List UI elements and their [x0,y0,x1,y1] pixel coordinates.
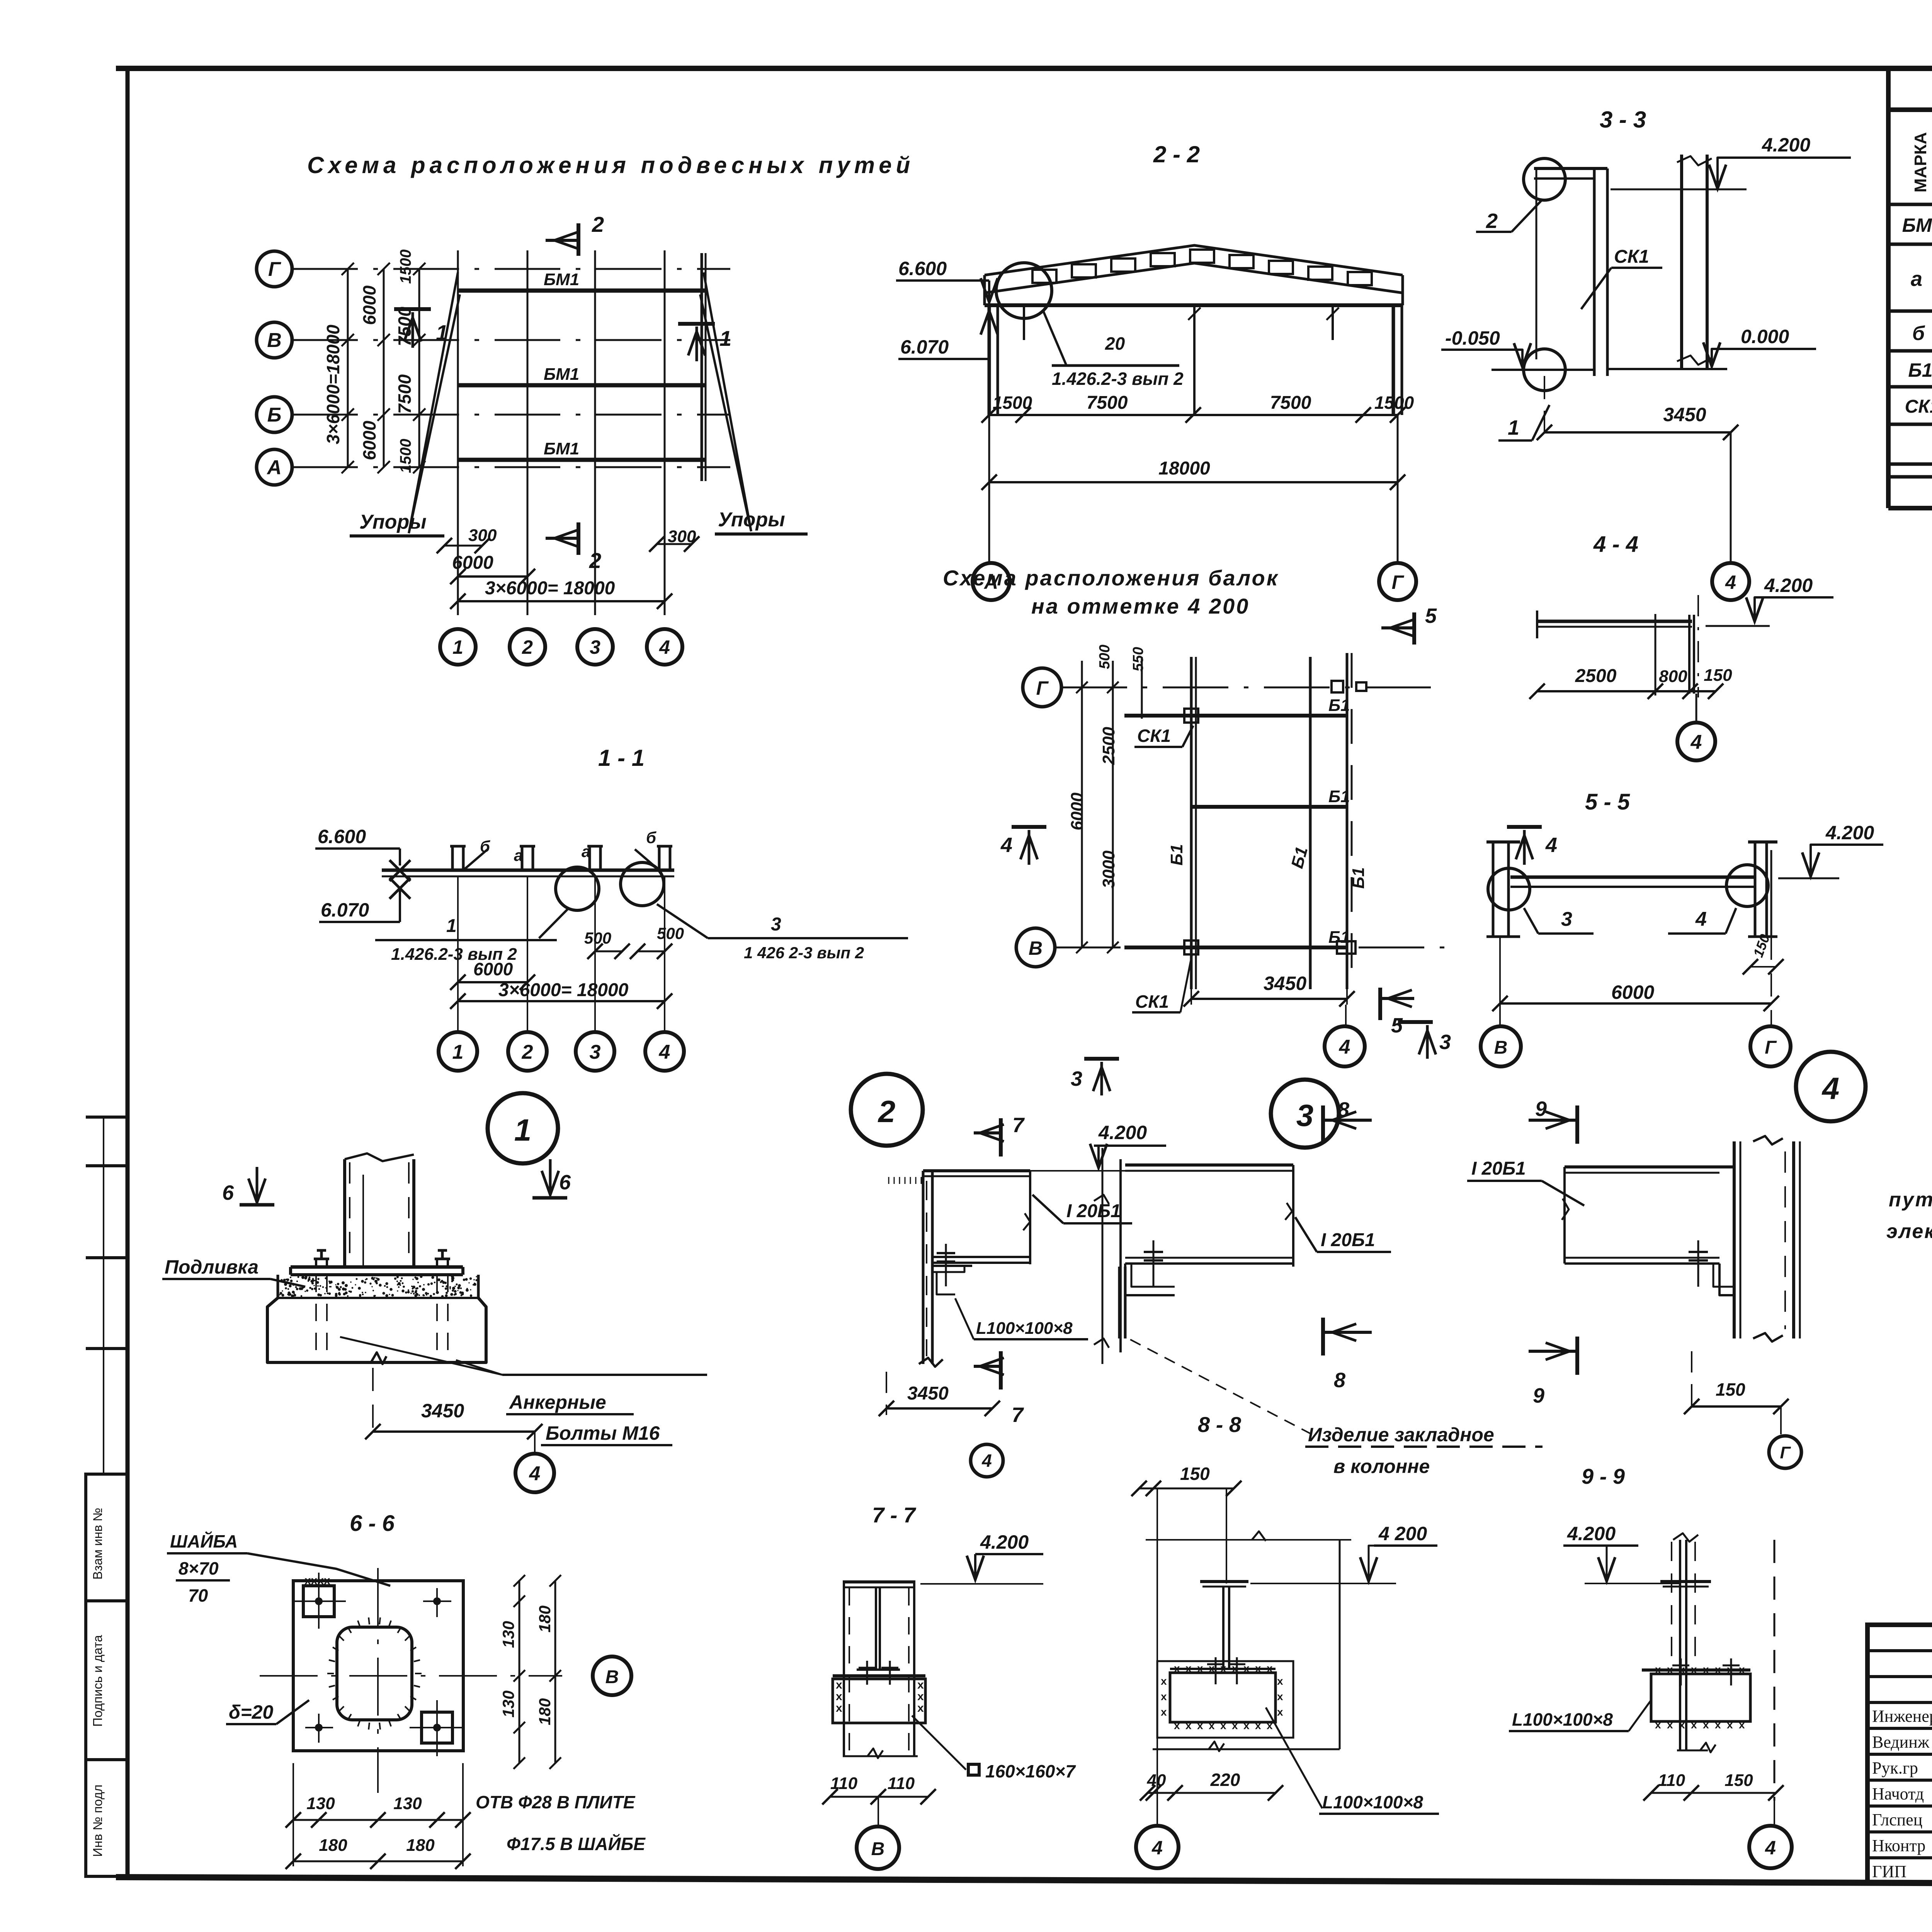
svg-text:130: 130 [306,1794,335,1813]
svg-text:6.600: 6.600 [318,826,366,847]
svg-text:1500: 1500 [1374,393,1414,413]
svg-text:Нконтр: Нконтр [1872,1836,1925,1855]
svg-text:В: В [1029,937,1043,959]
svg-text:Г: Г [1392,571,1405,593]
svg-text:6000: 6000 [473,959,513,979]
svg-text:В: В [267,329,282,352]
svg-text:160×160×7: 160×160×7 [985,1761,1076,1781]
svg-text:8: 8 [1334,1369,1345,1392]
svg-text:6.600: 6.600 [898,258,947,279]
svg-text:4 200: 4 200 [1378,1523,1427,1544]
svg-text:x: x [1243,1719,1250,1731]
svg-text:1500: 1500 [397,250,414,284]
svg-text:Начотд: Начотд [1872,1784,1924,1803]
svg-text:СК1: СК1 [1614,247,1649,267]
svg-text:Упоры: Упоры [718,509,785,531]
svg-text:Подпись и дата: Подпись и дата [90,1635,105,1727]
svg-text:x: x [917,1690,924,1703]
svg-text:Б1: Б1 [1328,696,1350,715]
svg-text:Глспец: Глспец [1872,1810,1922,1829]
svg-text:1: 1 [452,1041,464,1063]
svg-text:БМ1: БМ1 [544,439,579,458]
svg-text:800: 800 [1659,667,1687,686]
svg-text:2: 2 [1486,209,1498,233]
svg-text:3 - 3: 3 - 3 [1600,107,1646,133]
svg-text:5: 5 [1425,604,1437,628]
svg-text:б: б [646,828,656,847]
svg-text:x: x [1267,1719,1273,1731]
svg-text:4: 4 [659,636,670,658]
svg-text:x: x [1667,1663,1673,1675]
svg-text:x: x [1185,1719,1192,1731]
svg-text:в колонне: в колонне [1333,1456,1430,1477]
svg-text:180: 180 [536,1698,554,1725]
svg-text:7: 7 [1012,1114,1025,1137]
svg-text:L100×100×8: L100×100×8 [1512,1709,1613,1730]
svg-text:1.426.2-3 вып 2: 1.426.2-3 вып 2 [1052,369,1184,389]
svg-text:7: 7 [1012,1403,1024,1427]
svg-text:ОТВ Ф28 В ПЛИТЕ: ОТВ Ф28 В ПЛИТЕ [476,1792,636,1812]
svg-text:Инженер: Инженер [1872,1707,1932,1726]
svg-text:1: 1 [514,1113,532,1147]
svg-text:6: 6 [222,1181,234,1204]
svg-text:В: В [871,1839,885,1859]
svg-text:x: x [1277,1706,1283,1718]
svg-text:2: 2 [589,548,601,573]
svg-text:4: 4 [981,1451,992,1471]
svg-text:5: 5 [1391,1014,1403,1037]
svg-text:x: x [1267,1662,1273,1674]
svg-text:БМ1: БМ1 [544,270,579,289]
svg-text:а: а [582,842,590,861]
svg-text:70: 70 [188,1585,208,1605]
svg-text:I 20Б1: I 20Б1 [1471,1158,1526,1179]
svg-text:x: x [836,1702,842,1714]
svg-text:x: x [1277,1690,1283,1702]
svg-text:7500: 7500 [1270,393,1311,413]
svg-text:а: а [1911,267,1922,291]
svg-text:Б1: Б1 [1349,867,1368,889]
svg-text:4.200: 4.200 [1098,1122,1147,1143]
svg-text:130: 130 [499,1690,517,1718]
svg-text:Схема расположения балок: Схема расположения балок [943,566,1279,590]
svg-text:1: 1 [452,636,463,658]
svg-text:x: x [1174,1662,1180,1674]
svg-text:x: x [1174,1719,1180,1731]
svg-text:3: 3 [1561,908,1572,930]
svg-text:Б1: Б1 [1167,844,1186,866]
svg-text:ГИП: ГИП [1872,1862,1906,1881]
svg-text:300: 300 [468,526,497,545]
svg-text:x: x [1220,1719,1226,1731]
svg-text:500: 500 [657,924,684,942]
svg-text:0.000: 0.000 [1741,326,1789,347]
svg-text:А: А [266,456,282,479]
svg-text:электродами Э42 по ГОСТ 946: электродами Э42 по ГОСТ 9467-75. [1886,1220,1932,1243]
svg-text:Г: Г [1780,1443,1791,1462]
svg-text:6000: 6000 [359,420,379,460]
svg-text:4: 4 [1000,833,1012,857]
svg-text:1500: 1500 [397,439,414,473]
svg-text:110: 110 [830,1774,858,1793]
svg-text:СК1: СК1 [1137,726,1171,746]
svg-text:-0.050: -0.050 [1445,327,1500,349]
svg-text:x: x [1232,1719,1238,1731]
svg-text:7 - 7: 7 - 7 [872,1503,917,1527]
svg-text:20: 20 [1105,333,1125,354]
svg-text:1: 1 [1508,416,1519,439]
svg-text:x: x [836,1679,842,1691]
svg-text:4.200: 4.200 [1764,575,1813,596]
svg-text:150: 150 [1716,1379,1745,1400]
svg-text:6.070: 6.070 [321,899,369,921]
svg-text:3450: 3450 [1663,404,1706,425]
svg-text:3: 3 [771,914,781,935]
svg-text:1500: 1500 [993,393,1032,413]
svg-text:4 - 4: 4 - 4 [1593,532,1638,557]
svg-text:x: x [1691,1719,1697,1731]
svg-text:3: 3 [1071,1067,1082,1090]
svg-text:5 - 5: 5 - 5 [1585,789,1630,815]
svg-text:Г: Г [1765,1037,1777,1058]
svg-text:6000: 6000 [452,553,493,573]
svg-text:x: x [1667,1719,1673,1731]
svg-text:x: x [1197,1662,1203,1674]
svg-text:4.200: 4.200 [1567,1523,1616,1544]
svg-text:на отметке 4 200: на отметке 4 200 [1031,594,1250,618]
svg-text:3×6000=18000: 3×6000=18000 [323,325,343,444]
svg-text:БМ1: БМ1 [544,365,579,384]
svg-text:Г: Г [268,258,281,281]
svg-text:150: 150 [1725,1771,1753,1790]
svg-text:x: x [1703,1663,1709,1675]
svg-text:3450: 3450 [1264,973,1306,994]
svg-text:4.200: 4.200 [1762,134,1810,156]
svg-text:1 - 1: 1 - 1 [598,745,645,771]
svg-text:Упоры: Упоры [359,511,427,533]
svg-text:7500: 7500 [395,374,415,414]
svg-text:7500: 7500 [395,306,415,346]
svg-text:150: 150 [1704,666,1732,685]
svg-text:Б1: Б1 [1908,359,1932,381]
svg-text:3450: 3450 [907,1383,949,1404]
svg-text:x: x [1703,1719,1709,1731]
svg-text:7500: 7500 [1087,393,1128,413]
svg-text:4: 4 [1765,1837,1776,1859]
svg-text:220: 220 [1210,1770,1240,1790]
svg-text:СК1: СК1 [1905,396,1932,417]
svg-text:I 20Б1: I 20Б1 [1066,1201,1121,1221]
svg-text:В: В [1494,1037,1508,1058]
svg-text:2: 2 [522,1041,533,1063]
svg-text:x: x [1715,1663,1721,1675]
svg-text:3000: 3000 [1099,850,1118,888]
svg-text:3450: 3450 [421,1400,464,1422]
svg-text:Инв № подл: Инв № подл [90,1784,105,1857]
svg-text:Схема расположения подвесных п: Схема расположения подвесных путей [307,152,914,178]
svg-text:x: x [1277,1675,1283,1687]
svg-text:Анкерные: Анкерные [509,1391,606,1413]
svg-text:Б1: Б1 [1328,787,1350,806]
svg-text:6: 6 [559,1171,571,1194]
svg-text:СК1: СК1 [1135,992,1169,1012]
svg-text:2 - 2: 2 - 2 [1153,141,1200,167]
svg-text:В: В [605,1667,619,1687]
svg-text:9: 9 [1535,1097,1547,1121]
svg-text:ШАЙБА: ШАЙБА [170,1531,238,1551]
svg-text:180: 180 [319,1836,347,1855]
svg-text:x: x [836,1690,842,1703]
svg-text:x: x [1255,1662,1261,1674]
svg-text:6 - 6: 6 - 6 [350,1511,395,1536]
svg-text:4: 4 [659,1041,670,1063]
svg-text:500: 500 [1097,645,1113,669]
svg-text:xxxx: xxxx [304,1574,330,1587]
svg-text:8×70: 8×70 [179,1558,219,1578]
svg-text:180: 180 [536,1605,554,1633]
svg-text:6000: 6000 [359,285,379,325]
svg-text:x: x [1691,1663,1697,1675]
svg-text:x: x [1185,1662,1192,1674]
svg-text:4: 4 [1695,908,1707,930]
svg-text:6000: 6000 [1068,793,1087,830]
svg-text:x: x [1655,1719,1661,1731]
svg-text:3: 3 [1439,1031,1451,1054]
svg-text:4: 4 [1690,731,1702,753]
svg-text:9: 9 [1533,1384,1544,1407]
svg-text:4: 4 [1339,1036,1350,1058]
svg-text:x: x [1739,1719,1745,1731]
svg-text:x: x [1655,1663,1661,1675]
svg-text:3×6000= 18000: 3×6000= 18000 [498,980,629,1000]
svg-text:8 - 8: 8 - 8 [1198,1412,1242,1437]
svg-text:x: x [1197,1719,1203,1731]
svg-text:110: 110 [1658,1771,1685,1790]
svg-text:1: 1 [719,326,731,350]
svg-text:3: 3 [1296,1098,1314,1133]
svg-text:x: x [1715,1719,1721,1731]
svg-text:Рук.гр: Рук.гр [1872,1759,1918,1777]
svg-text:1: 1 [436,320,448,345]
svg-text:x: x [1727,1719,1733,1731]
svg-text:4: 4 [1725,571,1736,593]
svg-text:I 20Б1: I 20Б1 [1321,1230,1375,1250]
svg-text:2: 2 [592,212,604,236]
svg-text:Изделие закладное: Изделие закладное [1308,1424,1494,1446]
svg-text:x: x [1161,1675,1167,1687]
svg-text:а: а [514,846,523,864]
svg-text:3: 3 [590,1041,601,1063]
svg-text:6000: 6000 [1611,981,1654,1003]
svg-text:9 - 9: 9 - 9 [1582,1464,1625,1488]
svg-text:4: 4 [1545,833,1557,857]
svg-text:Б1: Б1 [1328,928,1350,947]
svg-text:путей производить электродам: путей производить электродами Э42А, оста… [1889,1189,1932,1211]
svg-text:x: x [1209,1719,1215,1731]
svg-text:4.200: 4.200 [1825,822,1874,844]
svg-text:180: 180 [406,1836,435,1855]
svg-text:2500: 2500 [1099,727,1118,765]
svg-text:8: 8 [1338,1098,1349,1121]
svg-text:2: 2 [878,1094,896,1129]
svg-text:2500: 2500 [1575,666,1617,686]
svg-text:4: 4 [1151,1837,1163,1859]
svg-text:150: 150 [1180,1464,1210,1484]
svg-text:x: x [917,1702,924,1714]
svg-text:x: x [917,1679,924,1691]
svg-text:Взам инв №: Взам инв № [90,1508,105,1580]
svg-text:x: x [1161,1690,1167,1702]
svg-text:40: 40 [1147,1771,1166,1790]
svg-text:Подливка: Подливка [165,1256,259,1278]
svg-text:x: x [1255,1719,1261,1731]
svg-text:1 426 2-3 вып 2: 1 426 2-3 вып 2 [744,944,864,962]
svg-text:18000: 18000 [1158,458,1210,479]
svg-text:x: x [1739,1663,1745,1675]
svg-text:130: 130 [499,1621,517,1648]
svg-text:Болты М16: Болты М16 [546,1422,660,1444]
svg-text:Б: Б [267,404,282,426]
svg-text:4: 4 [529,1463,541,1485]
svg-text:3: 3 [590,636,600,658]
svg-text:130: 130 [393,1794,422,1813]
svg-text:δ=20: δ=20 [229,1701,274,1723]
svg-text:550: 550 [1130,647,1146,671]
svg-text:МАРКА: МАРКА [1911,132,1930,192]
svg-text:3×6000= 18000: 3×6000= 18000 [485,578,615,599]
svg-text:1: 1 [446,916,457,936]
svg-text:110: 110 [888,1774,915,1793]
svg-text:2: 2 [522,636,533,658]
svg-text:4: 4 [1821,1071,1840,1105]
svg-text:x: x [1161,1706,1167,1718]
svg-text:Вединж: Вединж [1872,1733,1930,1752]
svg-text:Ф17.5 В ШАЙБЕ: Ф17.5 В ШАЙБЕ [507,1834,646,1854]
svg-text:Г: Г [1036,677,1049,699]
svg-text:б: б [1912,322,1925,345]
svg-text:6.070: 6.070 [900,336,949,358]
svg-text:4.200: 4.200 [980,1531,1029,1553]
svg-text:500: 500 [584,929,611,947]
svg-text:БМ1: БМ1 [1902,214,1932,236]
svg-text:L100×100×8: L100×100×8 [1322,1792,1423,1812]
svg-text:L100×100×8: L100×100×8 [976,1319,1073,1338]
